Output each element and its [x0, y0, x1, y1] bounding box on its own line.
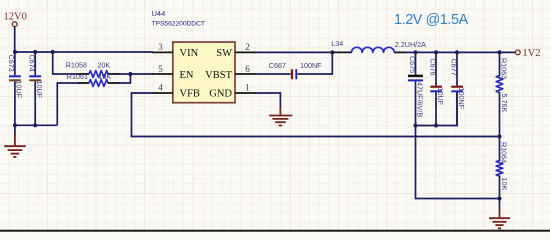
svg-text:1V2: 1V2 [522, 48, 540, 59]
svg-text:4: 4 [158, 83, 163, 93]
resistor R1064 [496, 137, 509, 199]
svg-text:3: 3 [158, 42, 163, 52]
node dot rail/R1063 [497, 50, 501, 54]
svg-text:R1061: R1061 [67, 72, 88, 81]
svg-text:C677: C677 [449, 59, 458, 76]
node dot gnd/C674 [33, 123, 37, 127]
node dot gnd/C673 [13, 123, 17, 127]
svg-text:C667: C667 [269, 61, 286, 70]
ground pin1 [269, 107, 292, 126]
pin 4 VFB lead [152, 92, 173, 94]
svg-text:100NF: 100NF [300, 61, 322, 70]
resistor R1061 [67, 72, 120, 86]
svg-text:47UF/6V/B: 47UF/6V/B [416, 82, 425, 117]
node dot capbus/C676 [434, 123, 438, 127]
svg-text:VFB: VFB [180, 89, 200, 100]
svg-text:R1063: R1063 [499, 58, 508, 79]
svg-text:10K: 10K [98, 72, 111, 81]
pin 5 EN lead [152, 73, 173, 75]
pin 3 VIN lead [152, 51, 173, 53]
wire caps bottom bus [416, 92, 458, 126]
node dot rail/C675 [413, 50, 417, 54]
pin 1 GND lead [235, 92, 256, 94]
svg-text:10UF: 10UF [35, 81, 44, 99]
wire C667 to SW node [298, 52, 333, 74]
capacitor C677 [449, 52, 466, 125]
IC U44 body [173, 42, 235, 103]
wire output rail [405, 51, 515, 53]
power port 1V2 circle [515, 50, 520, 55]
wire VBST to C667 [255, 73, 291, 75]
sheet border bottom [0, 230, 550, 232]
ground left [4, 125, 26, 157]
svg-text:GND: GND [209, 89, 232, 100]
svg-text:1.2V @1.5A: 1.2V @1.5A [394, 12, 469, 28]
wire C675 down to bottom gnd bus [416, 126, 500, 199]
svg-text:VIN: VIN [180, 48, 199, 59]
svg-text:R1058: R1058 [66, 61, 87, 70]
pin names [180, 48, 233, 100]
svg-text:10UF: 10UF [436, 88, 445, 106]
svg-text:5: 5 [158, 64, 163, 74]
capacitor C667 [269, 61, 322, 79]
svg-text:R1064: R1064 [499, 142, 508, 163]
svg-text:10UF: 10UF [15, 81, 24, 99]
node dot bottom bus/R1064 [497, 196, 501, 200]
node dot capbus/C675 [413, 123, 417, 127]
wire R1061 right to EN [119, 73, 130, 83]
svg-text:EN: EN [180, 70, 194, 81]
node dot rail/C676 [434, 50, 438, 54]
svg-text:5.76K: 5.76K [500, 94, 509, 113]
svg-text:6: 6 [245, 64, 250, 74]
wire R1061 left branch [57, 83, 79, 125]
capacitor C673 [7, 52, 24, 125]
power port 12V0 circle [12, 22, 17, 27]
svg-text:1: 1 [245, 83, 250, 93]
svg-text:12V0: 12V0 [4, 12, 27, 23]
svg-text:TPS562200DDCT: TPS562200DDCT [152, 21, 205, 28]
capacitor C674 [27, 52, 44, 125]
svg-text:C674: C674 [27, 55, 36, 72]
wire GND pin1 [255, 93, 280, 108]
svg-text:C675: C675 [408, 56, 417, 73]
pin 2 SW lead [235, 51, 256, 53]
svg-text:C676: C676 [428, 59, 437, 76]
wire top bus [15, 51, 153, 53]
resistor R1058 [66, 61, 120, 78]
svg-text:10K: 10K [500, 178, 509, 191]
node dot SW/L34/C667 [330, 50, 334, 54]
wire SW net [255, 51, 332, 53]
svg-text:SW: SW [216, 48, 232, 59]
svg-text:2: 2 [245, 42, 250, 52]
svg-text:L34: L34 [331, 39, 343, 48]
pin numbers [158, 42, 250, 93]
node dot FB junction [497, 134, 501, 138]
pin 6 VBST lead [235, 73, 256, 75]
svg-text:100NF: 100NF [457, 88, 466, 110]
ground bottom right [489, 199, 510, 229]
node dot bus/C673 [13, 50, 17, 54]
svg-text:20K: 20K [97, 61, 110, 70]
svg-text:2.2UH/2A: 2.2UH/2A [395, 40, 426, 49]
inductor L34 [331, 39, 426, 52]
node dot rail/C677 [455, 50, 459, 54]
resistor R1063 [496, 52, 509, 136]
wire VFB feedback line [132, 93, 501, 137]
capacitor C675 [408, 52, 425, 125]
svg-text:VBST: VBST [205, 70, 232, 81]
svg-text:C673: C673 [7, 55, 16, 72]
node dot bus/R1058 branch [51, 50, 55, 54]
svg-text:U44: U44 [152, 9, 166, 18]
node dot EN junction [128, 72, 132, 76]
node dot bus/C674 [33, 50, 37, 54]
wire 12V0 to bus [14, 27, 16, 52]
capacitor C676 [428, 52, 445, 125]
wire left ground bus [15, 124, 57, 126]
wire EN line [119, 73, 153, 75]
wire R1058 pullup branch [53, 52, 79, 74]
